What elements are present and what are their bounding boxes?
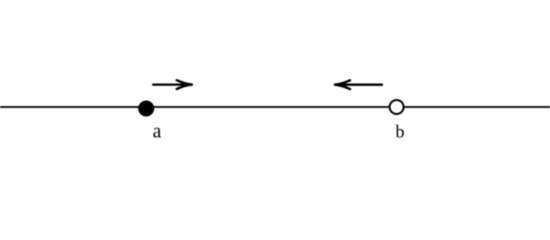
arrow right (velocity of a)	[152, 80, 192, 89]
point a (filled dot)	[138, 101, 154, 117]
svg-text:a: a	[153, 121, 162, 142]
svg-text:b: b	[396, 121, 405, 141]
arrow left (velocity of b)	[335, 80, 383, 89]
point b (open circle)	[390, 100, 404, 114]
number line	[0, 106, 550, 108]
